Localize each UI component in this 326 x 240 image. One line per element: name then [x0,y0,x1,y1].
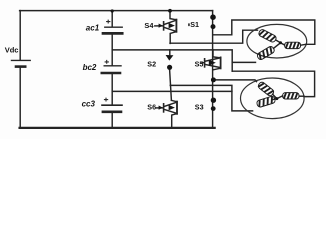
svg-text:S4: S4 [144,21,154,30]
svg-text:cc3: cc3 [82,100,96,109]
svg-text:bc2: bc2 [83,63,97,72]
svg-text:S2: S2 [147,60,156,69]
svg-text:S3: S3 [195,103,204,112]
svg-text:Vdc: Vdc [5,45,19,54]
svg-text:S1: S1 [190,20,199,29]
svg-text:ac1: ac1 [86,23,100,32]
svg-text:S5: S5 [195,59,204,68]
svg-text:S6: S6 [147,103,156,112]
